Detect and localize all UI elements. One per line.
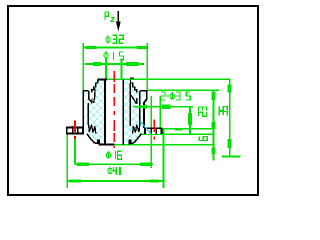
shoulder extension line B xyxy=(147,89,219,91)
left outer edge xyxy=(82,91,84,128)
extension vertical x152 xyxy=(150,96,152,168)
dimension line phi15 xyxy=(85,63,145,65)
left cone staircase xyxy=(92,80,98,93)
label phi32 xyxy=(106,37,110,42)
vertical dimension 35 line xyxy=(229,79,231,156)
leader line with arrow xyxy=(133,106,193,108)
left groove wall xyxy=(89,91,92,103)
label 35 rotated xyxy=(219,112,227,116)
label 6 xyxy=(199,137,207,141)
left bottom curve xyxy=(87,134,99,145)
left ring inner wall xyxy=(87,103,89,125)
leader arrowhead xyxy=(133,105,147,109)
right column outer wall xyxy=(129,83,131,126)
vertical dim line x190 with down arrow xyxy=(189,107,191,135)
extension tick phi15 left xyxy=(105,59,107,80)
arrow blob phi15 right xyxy=(126,62,139,66)
sleeve wall right xyxy=(122,79,124,145)
label Pz xyxy=(105,12,109,20)
left foot tick above xyxy=(71,126,73,128)
foot-bottom extension line C xyxy=(163,128,214,130)
leader blob xyxy=(162,105,171,109)
drawing frame border xyxy=(8,6,258,195)
green extension line phi32 left xyxy=(82,43,84,91)
part: top plateau xyxy=(98,78,108,80)
dimension line phi16 xyxy=(75,163,153,165)
extension tick phi15 right xyxy=(121,59,123,80)
right ring plateau xyxy=(140,90,147,92)
label phi15 xyxy=(104,53,108,58)
right groove V strokes xyxy=(131,95,137,104)
right lower groove zigzag xyxy=(133,122,141,133)
label 2-phi3.5 xyxy=(161,92,165,100)
left foot hole lines xyxy=(72,128,74,134)
long bottom-surface extension line xyxy=(114,144,214,146)
right outer edge xyxy=(144,91,147,128)
right column inner wall xyxy=(139,91,141,126)
right bottom curve xyxy=(129,134,141,145)
dimension line phi32 xyxy=(83,47,147,49)
right foot hole lines xyxy=(150,128,152,134)
left lower groove zigzag xyxy=(88,122,96,133)
rubber hatch left main region xyxy=(87,80,105,145)
arrow right phi32 xyxy=(137,46,147,49)
vertical dimension 23 line xyxy=(213,90,215,160)
right cone staircase xyxy=(131,80,137,93)
label phi16 xyxy=(106,153,110,158)
bottom left extension vertical x75 xyxy=(74,139,76,164)
top surface extension line A xyxy=(106,78,230,80)
rubber hatch right main region xyxy=(123,80,141,145)
extension line D xyxy=(140,133,214,135)
red centerline main xyxy=(113,71,115,148)
white upper groove region left xyxy=(90,86,96,103)
left ring plateau xyxy=(83,90,89,92)
label phi41 xyxy=(108,168,112,173)
part bottom black xyxy=(99,144,115,146)
rubber hatch right ring strip xyxy=(140,91,147,134)
red centerline left hole xyxy=(74,121,76,132)
left membrane inner edge xyxy=(94,89,96,103)
bottom left extension vertical x67 xyxy=(66,134,68,188)
arrow blob phi15 left xyxy=(93,62,102,66)
green extension line phi32 right xyxy=(146,43,148,91)
extension vertical x160 xyxy=(159,96,161,134)
rubber hatch left ring strip xyxy=(83,91,88,134)
sleeve wall left xyxy=(104,79,106,145)
right tick above top xyxy=(130,77,134,79)
bottom right extension vertical x163.5 xyxy=(163,129,165,188)
right foot outline xyxy=(145,128,161,134)
force arrow Pz xyxy=(117,11,119,24)
red centerline right hole xyxy=(153,120,155,132)
label 23 rotated xyxy=(199,112,207,116)
left foot outline xyxy=(67,128,84,134)
arrow left phi32 xyxy=(85,46,96,49)
right foot cyan diagonal xyxy=(140,121,152,135)
dimension line phi41 xyxy=(67,180,162,182)
bottom tick right xyxy=(222,156,240,158)
